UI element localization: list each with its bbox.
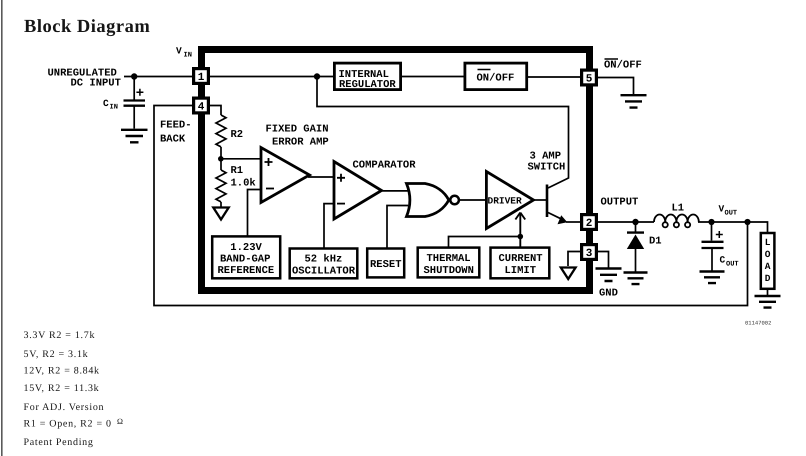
svg-text:FEED-: FEED- bbox=[160, 120, 192, 132]
svg-text:D: D bbox=[765, 273, 771, 284]
svg-text:3.3V R2 = 1.7k: 3.3V R2 = 1.7k bbox=[24, 330, 96, 341]
svg-text:1: 1 bbox=[198, 72, 205, 84]
svg-text:OUTPUT: OUTPUT bbox=[601, 197, 639, 209]
svg-text:CURRENT: CURRENT bbox=[499, 253, 543, 265]
svg-text:L: L bbox=[765, 237, 771, 248]
svg-text:ON/OFF: ON/OFF bbox=[477, 73, 515, 85]
svg-text:R1 = Open, R2 = 0: R1 = Open, R2 = 0 bbox=[24, 419, 112, 430]
svg-text:5: 5 bbox=[586, 74, 593, 86]
svg-text:C: C bbox=[103, 98, 109, 109]
svg-text:Ω: Ω bbox=[117, 417, 123, 426]
svg-text:SWITCH: SWITCH bbox=[528, 162, 566, 174]
svg-text:BACK: BACK bbox=[160, 134, 186, 146]
svg-text:3: 3 bbox=[586, 248, 593, 260]
svg-text:12V, R2 = 8.84k: 12V, R2 = 8.84k bbox=[24, 366, 100, 377]
svg-text:RESET: RESET bbox=[370, 259, 402, 271]
svg-text:01147002: 01147002 bbox=[745, 320, 771, 327]
svg-text:5V, R2 = 3.1k: 5V, R2 = 3.1k bbox=[24, 349, 89, 360]
svg-text:THERMAL: THERMAL bbox=[427, 253, 471, 265]
svg-text:DC INPUT: DC INPUT bbox=[71, 78, 121, 90]
svg-text:GND: GND bbox=[599, 288, 618, 300]
svg-text:SHUTDOWN: SHUTDOWN bbox=[424, 265, 474, 277]
svg-text:IN: IN bbox=[184, 52, 192, 60]
svg-text:1.23V: 1.23V bbox=[230, 242, 262, 254]
svg-text:2: 2 bbox=[586, 218, 593, 230]
svg-text:Patent Pending: Patent Pending bbox=[24, 437, 94, 448]
svg-text:For ADJ. Version: For ADJ. Version bbox=[24, 402, 105, 413]
svg-text:OUT: OUT bbox=[725, 210, 738, 218]
svg-text:REFERENCE: REFERENCE bbox=[218, 265, 275, 277]
svg-text:4: 4 bbox=[198, 102, 205, 114]
svg-text:REGULATOR: REGULATOR bbox=[339, 79, 396, 91]
svg-text:BAND-GAP: BAND-GAP bbox=[220, 253, 270, 265]
svg-text:DRIVER: DRIVER bbox=[488, 196, 523, 207]
svg-text:15V, R2 = 11.3k: 15V, R2 = 11.3k bbox=[24, 383, 100, 394]
svg-text:Block Diagram: Block Diagram bbox=[24, 17, 150, 37]
svg-text:ERROR AMP: ERROR AMP bbox=[272, 137, 329, 149]
svg-text:V: V bbox=[176, 46, 182, 57]
svg-text:LIMIT: LIMIT bbox=[505, 265, 537, 277]
svg-text:R1: R1 bbox=[231, 165, 244, 177]
svg-text:L1: L1 bbox=[672, 203, 685, 215]
svg-text:C: C bbox=[720, 255, 726, 266]
svg-text:OSCILLATOR: OSCILLATOR bbox=[292, 266, 356, 278]
svg-text:1.0k: 1.0k bbox=[231, 178, 256, 190]
svg-text:R2: R2 bbox=[231, 129, 244, 141]
svg-text:D1: D1 bbox=[649, 236, 662, 248]
svg-text:OUT: OUT bbox=[726, 261, 739, 269]
svg-text:52 kHz: 52 kHz bbox=[305, 254, 343, 266]
svg-text:A: A bbox=[765, 261, 771, 272]
svg-text:COMPARATOR: COMPARATOR bbox=[353, 160, 417, 172]
svg-text:ON/OFF: ON/OFF bbox=[604, 60, 642, 72]
svg-text:IN: IN bbox=[110, 104, 118, 112]
svg-text:FIXED GAIN: FIXED GAIN bbox=[266, 124, 329, 136]
svg-text:O: O bbox=[765, 249, 771, 260]
